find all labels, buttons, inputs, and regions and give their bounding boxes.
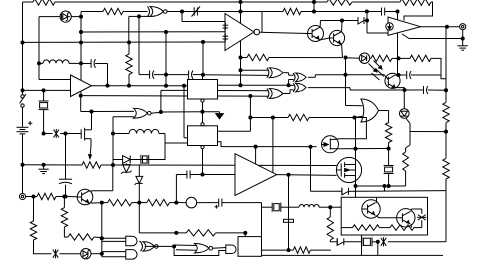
junction (446,90.2) xyxy=(444,88,448,92)
inductor L2 xyxy=(129,129,159,133)
wire U4 upper input xyxy=(38,63,40,79)
junction (113,133.5) xyxy=(111,132,115,136)
wire staircase lower xyxy=(174,246,226,255)
and gate U18 xyxy=(226,245,236,254)
wire Q5 emitter xyxy=(410,224,412,228)
wire D1 right xyxy=(71,16,81,18)
wire D2 to junction xyxy=(364,20,367,22)
wire U7 bottom pin xyxy=(202,149,204,175)
junction (39,63.4) xyxy=(37,61,41,65)
wire U17 inputs xyxy=(174,244,196,247)
junction (355.5,148.7) xyxy=(354,147,358,151)
junction (43.6,90.4) xyxy=(42,88,46,92)
junction (101.8,202.6) xyxy=(100,201,104,205)
node A junction (22.5,42.5) xyxy=(21,41,25,45)
capacitor C10 polarized xyxy=(197,202,219,204)
wire XNOR U1 lower input xyxy=(129,15,139,17)
resistor R24 xyxy=(186,230,215,236)
wire x=184 down xyxy=(183,86,185,138)
resistor R5 vertical xyxy=(126,54,132,75)
junction (384.5,186) xyxy=(383,184,387,188)
capacitor C5 xyxy=(188,70,190,78)
wire U17 out to U18 xyxy=(213,247,226,250)
xnor gate U15 xyxy=(143,242,155,252)
junction (81,32) xyxy=(79,30,83,34)
junction (113,165) xyxy=(111,163,115,167)
junction (388.6,186) xyxy=(387,184,391,188)
wire U11 out to U10 xyxy=(284,93,291,95)
junction (462.7,38.5) xyxy=(461,37,465,41)
junction (272.9,117.5) xyxy=(271,116,275,120)
wire x=112.8 up xyxy=(112,165,114,191)
junction (354.5,117.5) xyxy=(353,116,357,120)
lamp E1 xyxy=(176,202,186,204)
ground arrow G2 xyxy=(219,112,221,114)
transistor Q3 xyxy=(64,196,77,198)
wire y=11.5 to resistor R2 xyxy=(81,11,103,13)
wire inductor L2 net xyxy=(113,133,129,135)
junction (446,131.6) xyxy=(444,130,448,134)
wire op-amp U2 upper input xyxy=(181,12,183,22)
diode D2 xyxy=(358,17,364,24)
wire Q3 emitter xyxy=(90,202,92,204)
switch S1 xyxy=(21,95,24,98)
transistor Q2 xyxy=(329,30,344,45)
wire Q4 collector stub xyxy=(376,197,378,202)
transistor Q4 xyxy=(362,200,380,218)
wire M1 source arrow to pot xyxy=(90,139,92,146)
wire Q2 collector xyxy=(341,21,343,32)
junction (240.5,57.5) xyxy=(239,56,243,60)
wire U14 out xyxy=(139,241,141,243)
transistor Q1 xyxy=(308,26,324,42)
wire U5 output xyxy=(151,112,161,113)
junction top (240.5,2) xyxy=(239,0,243,4)
capacitor C6 xyxy=(399,74,407,76)
resistor R3 feedback xyxy=(262,11,283,13)
wire D1 left xyxy=(39,16,60,18)
junction (160.9,112) xyxy=(159,110,163,114)
wire vertical x=139 xyxy=(138,16,140,74)
wire x=446 lower xyxy=(445,179,447,242)
resistor R10 vertical xyxy=(443,158,449,179)
wire y=74.6 capacitor bus xyxy=(139,74,149,76)
diode D10 xyxy=(337,238,344,245)
junction (250.4,96) xyxy=(248,94,252,98)
or gate U12 xyxy=(361,99,379,122)
junction (377.8,241.8) xyxy=(376,240,380,244)
wire vertical x=129 xyxy=(128,16,130,42)
inductor L1 xyxy=(39,62,43,64)
led D4 xyxy=(346,57,360,60)
terminal T1 xyxy=(460,24,466,30)
wire feedback x=262 xyxy=(261,12,263,33)
junction (166,32) xyxy=(164,30,168,34)
wire U1 output xyxy=(167,11,182,13)
junction (91.5,111.5) xyxy=(90,110,94,114)
bubble U6 bottom xyxy=(201,99,204,102)
wire U12 output xyxy=(379,110,389,112)
wire y=253.7 to gates xyxy=(102,251,127,253)
wire U4 output bus y=85.7 xyxy=(92,85,188,87)
wire feedback U3 xyxy=(409,38,463,40)
wire Q5 collector xyxy=(410,209,412,212)
junction (314,2) xyxy=(312,0,316,4)
junction (314,11.5) xyxy=(312,10,316,14)
junction (288.6,85.3) xyxy=(287,83,291,87)
junction (81,63.4) xyxy=(79,61,83,65)
capacitor C8 xyxy=(65,134,67,180)
wire x=22.5 to terminal xyxy=(22,165,24,194)
crossed diode D3 xyxy=(44,133,53,135)
junction (139,16.4) xyxy=(137,14,141,18)
phototransistor Q6 xyxy=(385,73,400,88)
junction (345.5,74.8) xyxy=(344,73,348,77)
clamp glyph U2 a xyxy=(223,24,229,26)
wire R14 right elbow xyxy=(310,249,331,251)
wire NOR upper input xyxy=(92,110,135,112)
wire vertical x=39 xyxy=(38,17,40,64)
bubble U7 top xyxy=(201,123,204,126)
circled diode D1 xyxy=(60,11,71,22)
junction (184,85.7) xyxy=(182,84,186,88)
wire NOR lower input xyxy=(113,116,134,118)
wire x=288.5 down xyxy=(288,175,290,250)
junction (176.3,202.6) xyxy=(174,201,178,205)
wire vertical x=446 top xyxy=(445,27,447,103)
wire Q3 collector xyxy=(90,190,92,193)
wire y=74.8 to Q6 xyxy=(346,74,385,76)
junction (404.5,90) xyxy=(403,88,407,92)
op-amp U3 xyxy=(388,17,421,35)
battery B1 xyxy=(22,107,24,126)
junction (81,42.5) xyxy=(79,41,83,45)
wire y=95.6 bus xyxy=(81,95,188,97)
wire y=85.3 bus xyxy=(218,84,289,86)
wire U10 upper input xyxy=(289,84,294,86)
big box enclosure xyxy=(341,197,427,235)
junction (388.6,148.5) xyxy=(387,147,391,151)
wire x=388.6 down xyxy=(388,111,390,123)
wire top rail xyxy=(23,1,34,3)
junction (240.5,70.3) xyxy=(239,68,243,72)
mosfet M1 xyxy=(80,129,82,139)
junction (166,74.6) xyxy=(164,73,168,77)
inductor L3 xyxy=(289,206,300,208)
wire y=165 long to mosfet M2 xyxy=(113,164,235,166)
wire Q2 emitter down xyxy=(341,44,344,57)
junction (174.1,246.4) xyxy=(172,244,176,248)
wire U12 inputs xyxy=(346,105,363,107)
xor gate U8 xyxy=(269,68,283,78)
wire U6 bottom pin xyxy=(202,102,204,122)
wire y=112 bus xyxy=(161,111,203,113)
op-amp U4 xyxy=(71,75,92,97)
wire R8 elbow right xyxy=(431,58,446,78)
junction (101.8,253.7) xyxy=(100,252,104,256)
nor gate U5 xyxy=(134,108,148,118)
diode D6 xyxy=(113,159,123,161)
jfet Q7 xyxy=(322,136,339,153)
crystal X5 xyxy=(361,237,363,246)
crossed diode D11 xyxy=(378,241,380,243)
wire vertical x=367 to U3 input xyxy=(366,12,368,34)
wire XOR_A upper input xyxy=(241,69,269,71)
crystal X1 xyxy=(43,90,45,101)
resistor R12 xyxy=(288,114,309,120)
wire y=117.5 left xyxy=(250,117,288,119)
capacitor C2 xyxy=(367,11,381,13)
wire pin into U19 xyxy=(244,233,246,237)
transistor Q5 xyxy=(397,209,415,227)
wire y=11.5 right xyxy=(314,11,367,13)
junction (288.5,250.1) xyxy=(287,248,291,252)
junction (202.5,111.8) xyxy=(201,110,205,114)
junction (65.5,196.5) xyxy=(64,195,68,199)
junction (342,20.5) xyxy=(340,19,344,23)
wire x=355.5 drain xyxy=(355,118,357,159)
wire M1 gate xyxy=(66,133,82,135)
resistor R11 vertical xyxy=(385,123,391,143)
junction (398.5,58.4) xyxy=(397,56,401,60)
junction (250.4,117.5) xyxy=(248,116,252,120)
op-amp U13 xyxy=(235,154,277,196)
wire R2 to gate U1 xyxy=(123,11,148,13)
wire x=113 elbow xyxy=(112,117,114,165)
wire U3 output xyxy=(421,26,460,28)
resistor R6 xyxy=(241,57,248,59)
junction (166,85.7) xyxy=(164,84,168,88)
junction (202.5,174.5) xyxy=(201,173,205,177)
capacitor C7 xyxy=(405,89,424,91)
circled diode D5 xyxy=(403,90,405,109)
wire top right elbow xyxy=(404,2,433,21)
crystal X2 xyxy=(388,149,390,166)
junction (43.6,133.5) xyxy=(42,132,46,136)
crossed diode D13 xyxy=(53,250,59,258)
junction (355.5,186) xyxy=(354,184,358,188)
and gate U16 xyxy=(126,250,137,260)
junction (367,20.5) xyxy=(365,19,369,23)
led D14 xyxy=(81,249,91,259)
wire U9 output xyxy=(308,76,315,78)
and gate U14 xyxy=(102,237,127,239)
wire U4 lower input y=90.4 xyxy=(23,89,71,91)
zener D8 xyxy=(138,165,140,176)
small box U19 xyxy=(238,237,262,257)
resistor R14 xyxy=(293,247,310,253)
wire x=203 up xyxy=(202,42,204,75)
bubble U7 bottom xyxy=(201,146,204,149)
resistor R17 xyxy=(380,227,391,229)
terminal T2 xyxy=(19,193,25,199)
junction (203,74.8) xyxy=(201,73,205,77)
junction (65.5,133.5) xyxy=(64,132,68,136)
wire box2 pin1 xyxy=(218,130,251,132)
wire U11 inputs xyxy=(218,90,269,92)
IC box U7 xyxy=(188,126,218,146)
wire to ground arrow xyxy=(203,111,220,113)
junction (245.3,232.9) xyxy=(243,231,247,235)
wire y=75 to XOR_A xyxy=(203,74,269,77)
wire nor net elbow xyxy=(80,96,82,112)
resistor R1 top-left xyxy=(33,0,55,5)
wire U2 output to Q1 base xyxy=(260,32,308,33)
clamp glyph U2 b xyxy=(223,35,229,37)
op-amp U2 xyxy=(225,14,254,51)
junction (447,26.7) xyxy=(445,25,449,29)
resistor R21 vertical xyxy=(33,197,35,222)
junction (182,11.5) xyxy=(180,10,184,14)
wire y=42.5 bus xyxy=(23,41,204,43)
fuse F1 xyxy=(284,219,294,222)
junction (22.5,90.4) xyxy=(21,88,25,92)
resistor R4 top xyxy=(394,1,400,3)
junction (107.5,85.6) xyxy=(106,84,110,88)
wire R15 bottom elbow xyxy=(330,240,337,242)
resistor R25 vertical xyxy=(403,152,409,171)
junction (80.7,95.6) xyxy=(79,94,83,98)
junction (398.5,75) xyxy=(397,73,401,77)
wire x=397.5 down through U3 xyxy=(397,12,399,76)
junction (240.5,85.3) xyxy=(239,83,243,87)
wire U9 lower input xyxy=(289,79,294,81)
resistor R26 top xyxy=(327,0,352,5)
resistor R15 vertical xyxy=(329,207,331,217)
wire elbow to box2 xyxy=(141,134,165,160)
wire left rail x=22.5 xyxy=(22,2,24,95)
junction (310.5,146.8) xyxy=(309,145,313,149)
crossed diode D12 xyxy=(418,215,426,221)
resistor R20 xyxy=(139,202,147,204)
diode D7 zener xyxy=(123,165,131,173)
junction (129,85.6) xyxy=(127,84,131,88)
wire x=314 stub xyxy=(313,2,315,12)
wire x=139.3 elbow xyxy=(138,203,140,233)
junction (240.5,11.5) xyxy=(239,10,243,14)
resistor R7 xyxy=(371,55,392,61)
junction (397.5,11.5) xyxy=(396,10,400,14)
wire Q7 source bus y=148.7 xyxy=(338,148,388,150)
wire box bottom to rail xyxy=(361,235,363,255)
crystal X4 xyxy=(262,206,273,208)
junction (139.3,202.6) xyxy=(137,201,141,205)
junction (176.3,232.9) xyxy=(174,231,178,235)
wire x=384.5 stub xyxy=(384,186,386,191)
capacitor C4 xyxy=(149,70,151,78)
wire x=310.5 down xyxy=(310,147,312,192)
wire x=272.9 down xyxy=(272,118,274,175)
resistor R8 xyxy=(399,57,411,59)
nor gate U17 xyxy=(195,243,210,253)
wire U18 output xyxy=(240,248,243,250)
wire U13 output xyxy=(277,174,337,177)
capacitor C9 xyxy=(186,171,188,179)
circled source glyph U3 xyxy=(386,23,393,30)
resistor R19 xyxy=(102,202,108,204)
resistor R16 xyxy=(341,227,352,229)
bubble U2 output xyxy=(254,29,260,35)
mosfet M2 xyxy=(336,157,361,182)
wire box2 pin2 bus y=146.6 xyxy=(218,142,317,147)
wire y=186 bus xyxy=(356,185,389,187)
wire U15 output xyxy=(145,245,175,247)
wire x=345.5 down xyxy=(345,58,347,106)
wire x=261.5 down xyxy=(261,203,263,237)
junction (366.8,11.5) xyxy=(365,10,369,14)
wire D5 to elbow xyxy=(406,118,410,124)
wire x=176.4 down xyxy=(175,175,177,203)
wire jfet drain elbow xyxy=(338,118,367,139)
resistor R2 xyxy=(103,8,123,14)
led emission arrows xyxy=(369,64,377,72)
junction (345.5,57.5) xyxy=(344,56,348,60)
resistor R9 vertical xyxy=(443,102,449,122)
wire terminal down xyxy=(462,30,464,46)
wire Q1 collector xyxy=(319,21,321,28)
junction (129,42.4) xyxy=(127,40,131,44)
wire x=377.8 to rail xyxy=(377,242,379,256)
junction (101.8,238.3) xyxy=(100,236,104,240)
junction (203,42) xyxy=(201,40,205,44)
junction (43.6,164.8) xyxy=(42,163,46,167)
junction (33.5,196.5) xyxy=(32,195,36,199)
wire y=232.9 bus xyxy=(139,232,186,234)
xor gate U9 xyxy=(296,73,307,82)
wire y=250.1 resistor xyxy=(262,249,289,251)
wire Q4 emitter to Q5 base xyxy=(377,215,379,218)
wire U1 out bus y=11.5 xyxy=(182,11,241,13)
wire C3 elbow to output node xyxy=(107,64,109,86)
wire y=174.5 bus xyxy=(176,174,186,176)
variable capacitor C1 xyxy=(193,7,195,15)
junction (22.5,164.8) xyxy=(21,163,25,167)
wire x=160.9 up elbow xyxy=(160,90,162,112)
wire R21 bottom elbow xyxy=(34,240,52,254)
bottom rail xyxy=(246,254,443,256)
junction (288.5,174.8) xyxy=(287,173,291,177)
crystal X3 xyxy=(130,159,141,161)
wire R22 bottom elbow xyxy=(64,227,68,237)
junction (81,16.6) xyxy=(79,15,83,19)
wire vertical x=240.5 xyxy=(240,2,242,85)
wire Q1 emitter to Q2 base xyxy=(320,38,329,40)
wire x=250.4 xyxy=(249,96,251,131)
wire y=191.3 bus xyxy=(311,190,342,192)
wire Q4 base feed xyxy=(330,206,341,208)
wire y=32 input bus xyxy=(81,31,225,33)
wire M1 drain up xyxy=(91,112,93,130)
wire U8 out to U9 xyxy=(284,72,289,74)
junction (330.3,207.2) xyxy=(328,205,332,209)
xor gate U11 xyxy=(269,89,283,99)
wire x=101.8 down xyxy=(101,203,103,254)
capacitor C3 xyxy=(81,63,91,65)
wire vertical x=81 xyxy=(80,12,82,96)
wire box1 top pin xyxy=(202,75,204,80)
wire Q6 collector xyxy=(395,74,398,76)
wire Q6 emitter xyxy=(395,87,405,89)
resistor R22 vertical xyxy=(63,197,65,208)
diode D9 xyxy=(342,188,349,195)
resistor R18 xyxy=(34,196,38,198)
wire x=255.6 down xyxy=(255,147,257,170)
wire y=165 bus xyxy=(23,164,83,166)
xor gate U10 xyxy=(296,83,307,92)
junction (255.6,146.6) xyxy=(254,145,258,149)
wire y=131.4 xyxy=(410,131,446,133)
ground G3 xyxy=(43,165,45,169)
